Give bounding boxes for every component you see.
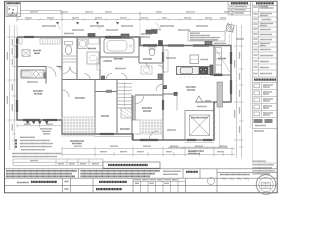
title label box — [103, 162, 160, 168]
tatami room corner closet mark — [19, 38, 22, 44]
bottom chain — [62, 147, 235, 157]
legend text block bottom-left — [12, 129, 62, 157]
title block notes — [6, 171, 160, 177]
room labels — [33, 49, 226, 154]
dark post mark near entry — [159, 41, 163, 46]
under-stair hatch box — [121, 108, 132, 118]
keyplan box top-left — [6, 2, 62, 17]
washer / vanity — [78, 39, 87, 49]
eave overhang line — [219, 103, 221, 146]
small column headers — [135, 179, 248, 184]
corridor fixtures below bath — [104, 60, 113, 62]
small basin room fixtures — [149, 48, 155, 56]
top-right table A — [228, 2, 251, 16]
toilet upper-left column — [65, 42, 73, 45]
tiled terrace — [62, 117, 95, 136]
top chain — [17, 12, 232, 22]
porch ground line — [168, 146, 228, 148]
x-table — [22, 50, 30, 56]
approval stamp small — [207, 177, 214, 184]
window shutter marks below living room wall — [27, 121, 48, 123]
north arrow — [196, 96, 203, 102]
pantry shelves — [216, 48, 222, 74]
note box upper right — [188, 32, 225, 42]
left chain — [7, 25, 16, 150]
basin room vanity — [141, 66, 152, 74]
right panel notes — [253, 161, 276, 174]
left kitchen nook counter — [21, 70, 44, 78]
mini chain below left wall — [17, 124, 62, 128]
window openings — [16, 36, 232, 141]
entry tile hatch — [140, 120, 163, 134]
area table bottom-left — [13, 159, 103, 165]
top annotation labels — [42, 26, 208, 58]
right chain — [234, 25, 244, 158]
right panel section 2 — [253, 76, 278, 78]
hall partial wall — [163, 93, 177, 95]
big stamp — [256, 175, 276, 195]
closet hatch band — [40, 38, 60, 44]
kitchen counter right — [177, 67, 211, 75]
title block frame — [5, 169, 278, 193]
page border — [5, 1, 278, 193]
entry step lines — [135, 120, 140, 134]
closet shelf lines — [63, 56, 76, 62]
hatched symbol — [226, 24, 234, 32]
door arcs — [56, 63, 163, 140]
interior walls — [17, 37, 231, 140]
tall cabinets — [217, 82, 223, 107]
stairs (main) — [117, 82, 132, 108]
GL marker triangles and leader labels — [56, 22, 119, 25]
dark vent marks — [88, 34, 95, 37]
right panel legend table — [253, 2, 278, 129]
X-square porch — [185, 111, 214, 141]
exterior wall envelope — [17, 37, 231, 140]
bath tub — [104, 39, 134, 54]
shoe cabinet — [133, 96, 136, 120]
company name row — [17, 182, 29, 184]
